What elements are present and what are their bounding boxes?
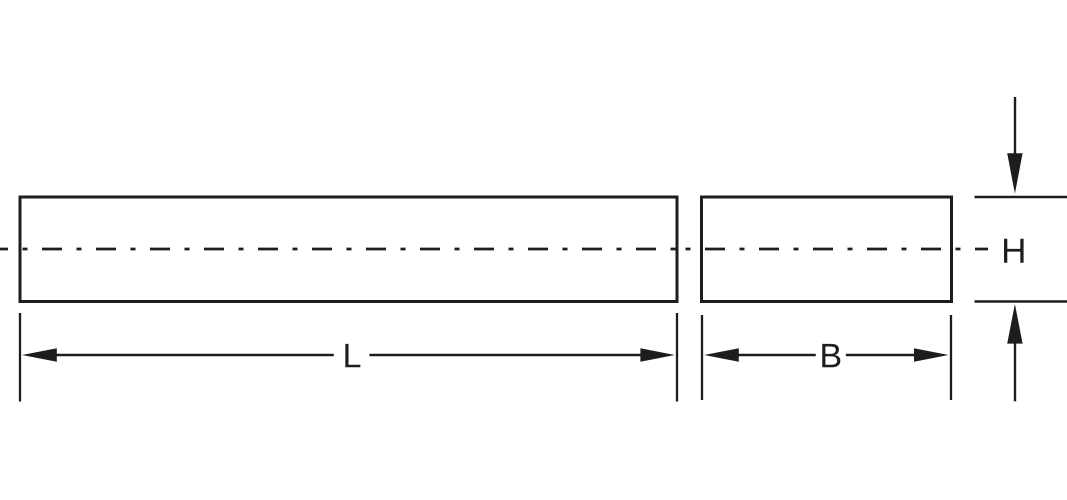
key bar body (short, B) <box>702 197 952 302</box>
key bar body (long, L) <box>20 197 677 302</box>
H bottom arrow leader <box>1014 340 1016 401</box>
label B <box>822 344 840 367</box>
H top arrow leader <box>1014 97 1016 160</box>
centerline (dash-dot axis, right part) <box>677 248 988 251</box>
arrowhead L right <box>640 348 674 361</box>
arrowhead B left <box>704 348 739 361</box>
dimension line B <box>734 354 816 356</box>
extension line L left <box>19 313 21 402</box>
arrowhead L left <box>22 348 57 361</box>
arrowhead B right <box>914 348 949 361</box>
extension line B left <box>701 315 703 400</box>
dimension line L <box>52 354 334 356</box>
extension line H top <box>975 196 1067 199</box>
H top arrowhead (points down) <box>1007 153 1022 193</box>
extension line L right <box>676 313 678 402</box>
extension line B right <box>950 315 952 400</box>
H bottom arrowhead (points up) <box>1007 304 1022 344</box>
label H <box>1004 239 1024 263</box>
label L <box>345 344 360 367</box>
extension line H bottom <box>975 300 1067 303</box>
centerline (dash-dot axis, left part) <box>0 248 677 251</box>
